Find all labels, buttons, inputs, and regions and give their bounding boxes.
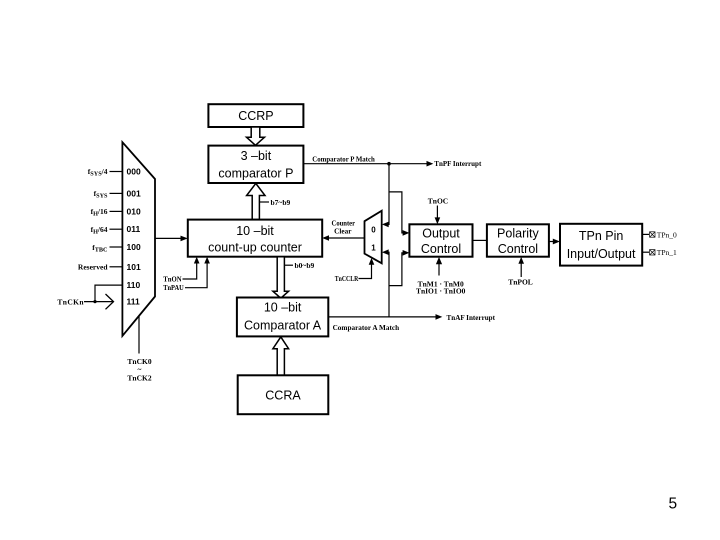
svg-text:Control: Control bbox=[498, 242, 538, 256]
pin pad symbol TPn_0 bbox=[650, 232, 655, 237]
svg-text:100: 100 bbox=[127, 242, 141, 252]
svg-text:TnCKn: TnCKn bbox=[57, 297, 84, 306]
wire Reserved to mux bbox=[110, 266, 123, 268]
svg-text:111: 111 bbox=[127, 297, 141, 307]
svg-text:0: 0 bbox=[371, 225, 376, 234]
svg-text:Reserved: Reserved bbox=[78, 263, 108, 272]
wire fSYS to mux bbox=[110, 192, 123, 194]
wire TnCKn to mux 111 bbox=[84, 301, 114, 303]
junction P match bbox=[387, 162, 391, 166]
wire output control to polarity control bbox=[473, 239, 487, 241]
svg-text:Control: Control bbox=[421, 242, 461, 256]
wire P match to clear mux input 0 bbox=[384, 164, 389, 225]
svg-text:Input/Output: Input/Output bbox=[567, 247, 636, 261]
wire TnM/TnIO to output control bbox=[438, 261, 440, 276]
svg-text:010: 010 bbox=[127, 206, 141, 216]
wire polarity control to TPn pin block bbox=[549, 241, 557, 243]
wire mux select TnCK0~TnCK2 bbox=[138, 316, 140, 354]
wire fH/16 to mux bbox=[110, 210, 123, 212]
wire TnPOL to polarity control bbox=[520, 261, 522, 278]
counter block bbox=[188, 220, 322, 257]
edge detector symbol bbox=[106, 294, 114, 309]
junction TnCKn branch bbox=[93, 300, 96, 303]
bus counter to comparator A (hollow arrow down) bbox=[273, 257, 289, 299]
wire fTBC to mux bbox=[110, 246, 123, 248]
svg-text:Comparator P Match: Comparator P Match bbox=[312, 155, 375, 164]
comparator A block bbox=[237, 298, 328, 337]
svg-text:fSYS/4: fSYS/4 bbox=[88, 167, 108, 178]
svg-text:b0~b9: b0~b9 bbox=[295, 261, 315, 270]
tick b7~b9 bbox=[259, 201, 269, 203]
svg-text:CCRP: CCRP bbox=[238, 109, 273, 123]
svg-text:Comparator A Match: Comparator A Match bbox=[333, 323, 400, 332]
register CCRA bbox=[238, 375, 329, 414]
register CCRP bbox=[208, 104, 303, 127]
TPn pin input/output block bbox=[560, 224, 642, 266]
svg-text:TnCK2: TnCK2 bbox=[127, 374, 151, 383]
svg-text:011: 011 bbox=[127, 224, 141, 234]
bus counter to comparator P (hollow arrow up) bbox=[247, 183, 265, 219]
wire comparator P match to TnPF interrupt bbox=[303, 163, 431, 165]
clock source multiplexer MUX8 bbox=[122, 142, 155, 336]
svg-text:Output: Output bbox=[422, 227, 460, 241]
wire comparator A match to TnAF interrupt bbox=[328, 316, 440, 318]
polarity control block bbox=[487, 224, 549, 256]
svg-text:TPn_0: TPn_0 bbox=[657, 230, 677, 239]
svg-text:TnOC: TnOC bbox=[428, 197, 448, 206]
comparator P block bbox=[208, 146, 303, 183]
wire TnOC to output control bbox=[436, 206, 438, 222]
svg-text:TnCCLR: TnCCLR bbox=[335, 274, 359, 283]
svg-text:TnIO1 · TnIO0: TnIO1 · TnIO0 bbox=[416, 287, 466, 296]
svg-text:001: 001 bbox=[127, 188, 141, 198]
wire P match to output control bbox=[389, 192, 408, 233]
svg-text:10 –bit: 10 –bit bbox=[264, 301, 302, 315]
svg-text:b7~b9: b7~b9 bbox=[271, 198, 291, 207]
svg-text:110: 110 bbox=[127, 280, 141, 290]
svg-text:3 –bit: 3 –bit bbox=[241, 149, 272, 163]
output control block bbox=[409, 224, 472, 256]
wire TnCCLR to clear mux select bbox=[359, 260, 372, 279]
wire TnON bbox=[183, 259, 197, 280]
pin pad symbol TPn_1 bbox=[650, 250, 655, 255]
svg-text:TnAF Interrupt: TnAF Interrupt bbox=[447, 313, 496, 322]
tick b0~b9 bbox=[284, 264, 293, 266]
svg-text:CCRA: CCRA bbox=[265, 388, 301, 402]
svg-text:Comparator A: Comparator A bbox=[244, 319, 322, 333]
svg-text:fH/64: fH/64 bbox=[91, 225, 108, 236]
svg-text:fTBC: fTBC bbox=[92, 243, 107, 254]
svg-text:10 –bit: 10 –bit bbox=[236, 224, 274, 238]
wire A match to clear mux input 1 bbox=[384, 252, 389, 317]
svg-text:TnPOL: TnPOL bbox=[508, 277, 533, 286]
wire A match to output control bbox=[389, 253, 408, 286]
svg-text:count-up counter: count-up counter bbox=[208, 241, 302, 255]
svg-text:TnPF Interrupt: TnPF Interrupt bbox=[434, 159, 481, 168]
wire 110 input branch bbox=[95, 285, 122, 302]
wire fSYS/4 to mux bbox=[110, 171, 123, 173]
svg-text:fSYS: fSYS bbox=[94, 189, 108, 200]
svg-text:TPn_1: TPn_1 bbox=[657, 248, 677, 257]
svg-text:101: 101 bbox=[127, 262, 141, 272]
bus CCRP to comparator P (hollow arrow down) bbox=[247, 127, 265, 145]
svg-text:Clear: Clear bbox=[334, 226, 352, 235]
wire mux output to counter bbox=[155, 237, 181, 239]
wire counter clear to counter bbox=[324, 237, 365, 239]
svg-text:fH/16: fH/16 bbox=[91, 207, 108, 218]
svg-text:Polarity: Polarity bbox=[497, 227, 539, 241]
counter clear multiplexer MUX2 bbox=[365, 211, 382, 264]
svg-text:TnPAU: TnPAU bbox=[163, 283, 184, 292]
bus CCRA to comparator A (hollow arrow up) bbox=[273, 337, 289, 375]
wire TPn_0 output bbox=[642, 233, 649, 235]
svg-text:TPn Pin: TPn Pin bbox=[579, 229, 624, 243]
wire TnPAU bbox=[185, 259, 207, 288]
svg-text:000: 000 bbox=[127, 167, 141, 177]
wire fH/64 to mux bbox=[110, 228, 123, 230]
svg-text:5: 5 bbox=[669, 496, 678, 513]
wire TPn_1 output bbox=[642, 251, 649, 253]
svg-text:comparator P: comparator P bbox=[218, 167, 293, 181]
svg-text:1: 1 bbox=[371, 243, 376, 252]
